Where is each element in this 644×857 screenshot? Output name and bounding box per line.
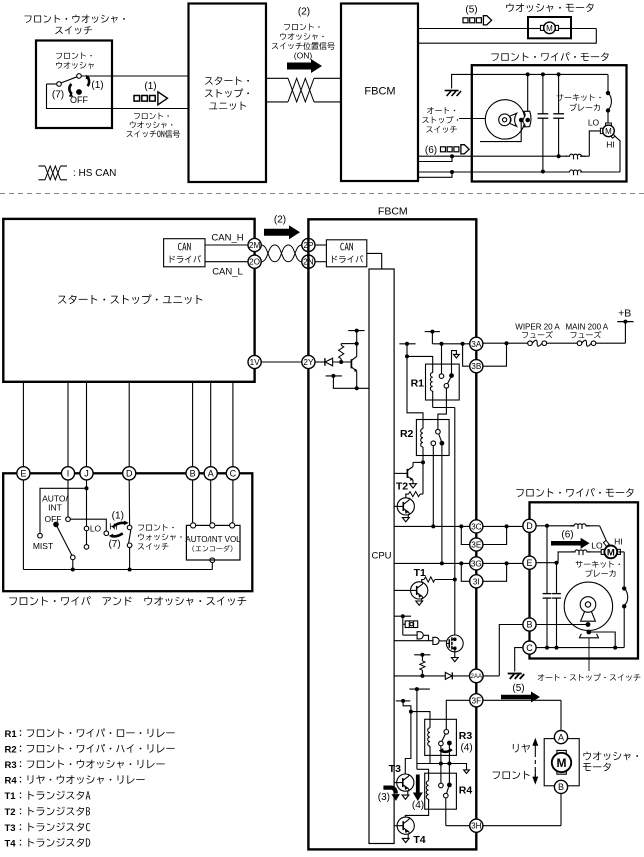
wire T3 collector — [405, 712, 411, 775]
washer switch contact (7) — [57, 82, 62, 87]
wire 3I branch — [461, 563, 469, 581]
J lower contact — [84, 545, 89, 550]
start-stop unit label (top) — [205, 76, 249, 85]
svg-text:A: A — [558, 732, 564, 742]
pin A (washer) — [554, 731, 567, 744]
relay R2 blade — [439, 434, 442, 441]
wire washer to common — [129, 548, 131, 570]
wiper motor M (top) — [606, 123, 612, 126]
ground symbol (top) — [445, 90, 459, 92]
pin 3I — [470, 575, 483, 588]
switch box caption — [9, 596, 246, 605]
AUTO/INT contact — [66, 517, 71, 522]
rail T-bar (oscillator) — [395, 615, 412, 617]
LO contact — [84, 526, 89, 531]
svg-text:(7): (7) — [108, 539, 120, 550]
wire start-stop to switch — [128, 382, 130, 467]
rear label — [513, 744, 530, 753]
fuse WIPER 20A — [528, 341, 533, 346]
wire C internal — [536, 647, 624, 649]
wire J to MIST — [40, 488, 87, 533]
circuit breaker label (top) — [556, 94, 600, 101]
supply T-bar (2Y) — [348, 330, 364, 332]
svg-text:M: M — [607, 547, 615, 558]
svg-text:(2): (2) — [274, 215, 286, 226]
svg-text:(2): (2) — [298, 7, 310, 18]
svg-text:(6): (6) — [425, 145, 437, 156]
wire CPU to gate 2 — [394, 640, 433, 642]
relay R3 moving contact — [447, 741, 452, 746]
wiper HI coil (top) — [566, 170, 586, 172]
section separator dashed line — [0, 193, 644, 195]
pin J — [80, 467, 93, 480]
svg-text:M: M — [605, 127, 612, 136]
wire CPU to 3G — [394, 562, 470, 564]
svg-text:J: J — [84, 469, 89, 479]
svg-text:E: E — [20, 469, 26, 479]
resistor (2AA) — [421, 655, 423, 661]
pin 1V — [248, 355, 261, 368]
svg-text:B: B — [526, 620, 532, 630]
front washer switch inner label — [56, 52, 92, 59]
encoder pins — [191, 523, 196, 528]
svg-text:: HS CAN: : HS CAN — [73, 168, 116, 179]
wiper LO wire (top) — [452, 155, 567, 157]
svg-text:R2: R2 — [5, 744, 17, 755]
relay R3 box — [425, 719, 457, 755]
transistor T4 emitter arrow — [407, 834, 409, 838]
washer motor label (top) — [506, 3, 593, 12]
supply T-bar 2 (coils) — [399, 343, 415, 345]
auto-stop switch dash (top) — [459, 118, 487, 120]
washer switch blade — [61, 77, 77, 83]
washer switch rotation arrow left — [69, 84, 72, 94]
wiper HI wire (top) — [452, 171, 567, 173]
fat arrow (2) bottom — [264, 225, 300, 239]
svg-text:WIPER 20 A: WIPER 20 A — [515, 323, 560, 332]
pin 3E — [470, 538, 483, 551]
auto-stop switch (top) — [485, 100, 524, 139]
capacitor 1 (bottom) — [546, 526, 548, 594]
pin 3C — [470, 520, 483, 533]
pin 3A — [470, 337, 483, 350]
pin D (motor) — [523, 519, 536, 532]
relay R1 moving contact — [449, 373, 454, 378]
svg-text:2Y: 2Y — [303, 358, 314, 367]
svg-text:B: B — [558, 782, 564, 792]
pin E — [17, 467, 30, 480]
ground symbol (C) — [508, 673, 522, 675]
relay R3 coil — [429, 719, 431, 728]
capacitor 2 (bottom) — [556, 563, 558, 594]
relay R3 lower contact — [439, 741, 444, 746]
wire CAN driver to CPU — [367, 253, 382, 269]
fuse MAIN 200A — [577, 341, 582, 346]
coil E (bottom) — [571, 550, 591, 552]
front washer switch box — [36, 41, 112, 129]
svg-text:R2: R2 — [400, 428, 414, 440]
washer motor M (bottom) — [552, 753, 571, 772]
relay R2 coil — [421, 429, 423, 447]
circuit breaker (top) — [607, 74, 609, 92]
transistor T2 emitter arrow — [407, 515, 409, 517]
svg-text:T1: T1 — [414, 567, 426, 579]
pin 2Y — [302, 355, 315, 368]
relay R2 moving contact — [440, 441, 445, 446]
svg-text:FBCM: FBCM — [378, 206, 408, 218]
svg-text:CPU: CPU — [371, 551, 391, 562]
svg-text:D: D — [126, 469, 133, 479]
wire E to common — [22, 480, 24, 570]
transistor T3 — [397, 774, 414, 791]
relay R4 coil — [426, 781, 428, 799]
CPU box — [369, 269, 394, 844]
relay R3 rotation arrow — [441, 749, 452, 751]
transistor T1 — [411, 582, 428, 599]
svg-text:HI: HI — [614, 536, 623, 546]
ground wire (top wiper) — [452, 74, 608, 88]
resistor T1 collector — [422, 580, 425, 582]
CAN driver box (FBCM) — [326, 240, 366, 267]
HI brush contact — [603, 540, 609, 546]
washer motor box (top) — [528, 17, 571, 38]
OFF pivot dot — [53, 522, 59, 528]
svg-text:2O: 2O — [249, 258, 260, 267]
junction output arrow — [449, 764, 466, 770]
relay R1 lower contact — [444, 384, 449, 389]
svg-text:1V: 1V — [250, 358, 261, 367]
wire 3C to D — [483, 525, 523, 527]
HI position contact — [104, 531, 109, 536]
front label — [492, 771, 529, 780]
svg-text:(5): (5) — [512, 683, 524, 694]
svg-text:2AA: 2AA — [470, 673, 483, 680]
pin 2M — [248, 238, 261, 251]
washer switch caption — [138, 524, 174, 531]
wire 3F to washer motor A — [483, 699, 561, 701]
wire washer switch (7) to start-stop unit — [47, 83, 57, 85]
relay R1 box — [426, 364, 460, 400]
wire 3G to E — [483, 562, 523, 564]
auto-stop pointer line — [588, 638, 590, 671]
wire start-stop to switch — [67, 382, 69, 467]
washer switch contact (1) — [77, 74, 82, 79]
svg-text:C: C — [526, 643, 533, 653]
wire D internal — [536, 525, 574, 527]
relay R4 lower contact — [444, 793, 449, 798]
coil D (bottom) — [570, 524, 590, 526]
svg-text:(1): (1) — [91, 80, 103, 91]
+B terminal — [617, 321, 633, 323]
wire CAN driver to 2M — [205, 244, 248, 246]
FBCM box (top) — [341, 4, 418, 182]
wire D to washer contact — [128, 480, 130, 525]
svg-text:A: A — [208, 469, 214, 479]
start-stop unit box (bottom) — [3, 219, 254, 382]
pin 3B — [470, 360, 483, 373]
auto-stop contact dots — [586, 622, 591, 627]
B-C link — [529, 631, 531, 641]
svg-text:M: M — [557, 756, 567, 770]
wire washer motor return loop — [571, 28, 596, 30]
wire junction to R4 contacts — [440, 764, 442, 784]
encoder wires — [192, 480, 194, 524]
wire 3H to washer motor B — [483, 825, 561, 827]
signal arrow (5) — [463, 18, 468, 23]
svg-text:T3: T3 — [5, 823, 16, 834]
front wiper motor box (top) — [472, 65, 627, 181]
wire start-stop to switch — [210, 382, 212, 467]
front wiper motor label (bottom) — [516, 488, 633, 497]
auto-stop switch label (top) — [427, 107, 455, 114]
svg-text:HI: HI — [606, 139, 615, 149]
FBCM wiper output wires (top) — [418, 155, 452, 157]
wire 3E branch — [461, 526, 469, 544]
svg-text:E: E — [526, 558, 532, 568]
transistor T4 — [397, 817, 414, 834]
svg-text:(ON): (ON) — [294, 51, 313, 61]
relay R3 blade — [442, 734, 446, 741]
svg-text:R1: R1 — [5, 729, 18, 740]
wire auto-stop to C — [589, 632, 615, 648]
CAN driver box (start-stop) — [164, 239, 205, 267]
buffer gate 2 — [433, 637, 439, 644]
svg-text:D: D — [526, 521, 533, 531]
svg-text:T1: T1 — [5, 791, 17, 802]
CAN twisted pair 2M-2P — [261, 245, 302, 262]
svg-text:3G: 3G — [471, 559, 482, 568]
encoder bottom pin — [210, 558, 215, 563]
pin D — [123, 467, 136, 480]
washer switch OFF pivot dot — [76, 89, 82, 95]
transistor T3 emitter arrow — [407, 791, 409, 795]
junction dots top rail — [526, 72, 530, 76]
washer contact (7) — [127, 543, 132, 548]
start-stop unit box (top) — [189, 4, 267, 183]
pin E (motor) — [523, 556, 536, 569]
HS CAN twisted pair to FBCM — [266, 77, 288, 79]
relay R2 fixed contact — [436, 429, 441, 434]
front washer switch title — [24, 15, 124, 23]
wire R3 contacts to junction — [440, 746, 442, 764]
svg-text:3H: 3H — [471, 822, 482, 831]
relay R3 fixed contact — [444, 730, 449, 735]
bold arrow (3) — [383, 788, 395, 794]
svg-text:(4): (4) — [460, 743, 472, 754]
svg-text:(7): (7) — [52, 90, 64, 101]
front wiper motor box (bottom) — [530, 502, 639, 658]
wire start-stop to switch — [232, 382, 234, 467]
relay R4 box — [425, 773, 457, 809]
washer switch rotation arrow right — [87, 77, 90, 87]
MIST contact — [38, 533, 43, 538]
svg-text:T4: T4 — [413, 834, 425, 846]
pin B — [186, 467, 199, 480]
wire washer switch (1) to start-stop unit — [81, 75, 188, 77]
rail T-bar (R4 feed) — [409, 688, 430, 690]
pin 2P — [302, 238, 315, 251]
common wire — [23, 569, 212, 571]
wire 3I to E-line — [483, 563, 507, 581]
svg-text:3F: 3F — [472, 696, 482, 705]
svg-text:(4): (4) — [412, 800, 424, 811]
svg-text:(6): (6) — [561, 530, 573, 541]
bold arrow (4) — [413, 775, 423, 802]
svg-text:R3: R3 — [459, 730, 473, 742]
relay R2 box — [416, 420, 449, 456]
label (2) caption — [284, 24, 320, 31]
wire B internal — [536, 624, 588, 626]
relay R2 lower contact — [431, 441, 436, 446]
pin C — [226, 467, 239, 480]
svg-text:T2: T2 — [396, 481, 408, 493]
rail T-bar (R3 feed) — [396, 700, 411, 702]
svg-text:R1: R1 — [411, 378, 425, 390]
pivot contact — [71, 555, 76, 560]
MOSFET Q1 — [446, 635, 463, 652]
signal arrow (6) — [441, 147, 446, 152]
pin C (motor) — [523, 641, 536, 654]
svg-text:R4: R4 — [459, 785, 473, 797]
pin 2AA — [470, 669, 484, 683]
emitter rail (2Y) — [326, 375, 342, 377]
svg-text:LO: LO — [588, 118, 600, 128]
auto-stop switch (bottom) — [564, 582, 612, 630]
pin A — [204, 467, 217, 480]
wire R2 coil node down — [422, 462, 424, 494]
wire start-stop to switch — [86, 382, 88, 467]
auto-stop cam skirt — [579, 634, 598, 638]
relay R1 moving arm wire — [452, 351, 457, 376]
relay R1 coil — [430, 373, 432, 391]
svg-text:T2: T2 — [5, 807, 16, 818]
washer blade — [129, 530, 131, 543]
svg-text:R3: R3 — [5, 760, 17, 771]
wire 2P to CAN driver — [315, 244, 326, 246]
wire R2 lower to 3C — [432, 446, 434, 527]
wire 3B to 3A junction — [463, 344, 470, 366]
relay R4 blade — [447, 787, 449, 793]
CAN driver label (FBCM) — [340, 243, 353, 251]
wiper motor M (bottom) — [601, 549, 604, 554]
svg-text:2M: 2M — [249, 241, 261, 250]
washer motor M (top) — [528, 28, 543, 30]
wire R2 moving to 3G — [441, 443, 443, 563]
signal arrow (1) front washer switch ON — [134, 96, 140, 102]
wire 3E to D-line — [483, 526, 507, 544]
wire 2N to CAN driver — [315, 261, 326, 263]
wire fuse to fuse — [547, 342, 578, 344]
wire M to breaker — [618, 551, 624, 553]
wire fuse to +B — [596, 342, 626, 344]
wire R3 coil feed — [411, 712, 430, 720]
washer contact (1) — [127, 525, 132, 530]
svg-text:FBCM: FBCM — [364, 86, 395, 98]
FBCM box (bottom) — [308, 219, 476, 849]
svg-text:I: I — [67, 469, 70, 479]
wire CPU to 2AA — [394, 675, 445, 677]
diode D2 (2AA) — [445, 672, 452, 679]
resistor (2Y pull-up) — [340, 359, 342, 362]
start-stop unit label (bottom) — [58, 294, 202, 304]
svg-text:LO: LO — [591, 540, 603, 550]
svg-text:B: B — [190, 469, 196, 479]
wire AUTO/INT to HI contact — [70, 519, 106, 531]
relay R4 fixed contact — [439, 783, 444, 788]
node R2 coil / T2 collector — [421, 460, 425, 464]
wire start-stop to switch — [22, 382, 24, 467]
fat arrow (6) — [551, 538, 590, 549]
svg-text:T4: T4 — [5, 838, 17, 849]
rail T-bar (2AA resistor) — [414, 654, 430, 656]
wire R4 coil feed — [416, 764, 418, 770]
wire R1 coil to driver line — [433, 407, 455, 409]
svg-text:LO: LO — [90, 524, 102, 534]
relay R4 moving contact — [447, 783, 452, 788]
pin B (motor) — [523, 618, 536, 631]
transistor T2 (second stage) — [397, 498, 414, 515]
svg-text:M: M — [546, 24, 553, 33]
wiper LO coil (top) — [566, 154, 586, 156]
svg-text:3E: 3E — [471, 540, 482, 549]
wire rail to auto-stop cam (top) — [527, 74, 529, 112]
capacitor 1 (top) — [542, 74, 544, 113]
wire to R2 coil — [407, 356, 423, 428]
wire 3A to fuse — [483, 342, 528, 344]
svg-text:3C: 3C — [471, 522, 482, 531]
wire E internal — [536, 562, 558, 564]
front wiper motor label (top) — [491, 52, 608, 61]
pin 3H — [470, 819, 483, 832]
svg-text:3A: 3A — [471, 340, 482, 349]
capacitor 2 (top) — [558, 74, 560, 113]
auto-stop cam (top) — [523, 111, 531, 127]
circuit breaker (bottom) — [622, 586, 626, 590]
washer rotation arrow up — [113, 523, 126, 527]
wire R4 to 3H — [445, 798, 447, 826]
CAN driver label (start-stop) — [178, 243, 191, 251]
wire 1V to 2Y — [261, 361, 302, 363]
fat arrow (2) right — [287, 59, 322, 73]
pin I — [61, 467, 74, 480]
transistor T1 emitter arrow — [421, 599, 423, 601]
svg-text:CAN_H: CAN_H — [211, 233, 243, 244]
pin 3G — [470, 557, 483, 570]
svg-text:CAN_L: CAN_L — [212, 267, 243, 278]
svg-text:INT: INT — [48, 503, 62, 513]
washer rotation arrow down — [111, 533, 123, 536]
wire auto-stop contact (top) — [480, 120, 521, 142]
MOSFET source arrow — [454, 652, 456, 658]
transistor T2 (first stage) — [394, 472, 407, 474]
svg-text:C: C — [230, 469, 237, 479]
wire FBCM to washer motor — [418, 28, 528, 30]
transistor Q0 (2Y) — [356, 344, 358, 357]
wire CAN driver to 2O — [205, 261, 248, 263]
buffer gate 1 — [403, 634, 417, 636]
wire R1 contact to R2 contact — [438, 388, 447, 429]
node base T0 — [339, 360, 343, 364]
pin B (washer) — [554, 780, 567, 793]
encoder box — [186, 525, 240, 560]
wire to R1 coil — [407, 356, 433, 372]
svg-text:OFF: OFF — [45, 514, 62, 524]
svg-text:MIST: MIST — [33, 541, 53, 551]
svg-text:R4: R4 — [5, 775, 18, 786]
wire pivot to common — [72, 560, 74, 570]
svg-text:(5): (5) — [465, 5, 477, 16]
pin 2N — [302, 255, 315, 268]
